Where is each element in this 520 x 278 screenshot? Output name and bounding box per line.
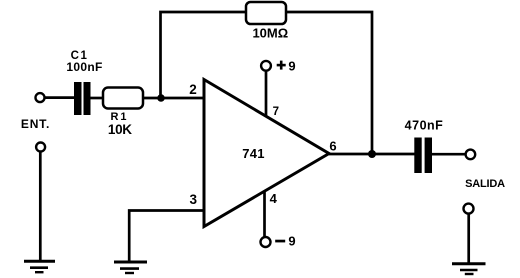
svg-text:470nF: 470nF [405,119,444,133]
svg-text:6: 6 [329,139,336,154]
svg-text:R1: R1 [110,111,128,123]
svg-text:9: 9 [288,58,295,73]
svg-text:9: 9 [288,234,295,249]
svg-text:SALIDA: SALIDA [465,178,505,190]
svg-text:7: 7 [273,106,279,118]
svg-text:ENT.: ENT. [21,117,50,131]
svg-text:10K: 10K [108,122,132,137]
svg-text:100nF: 100nF [66,60,102,74]
svg-text:10MΩ: 10MΩ [252,25,288,40]
svg-text:2: 2 [189,82,197,97]
svg-text:3: 3 [189,192,197,207]
svg-text:741: 741 [242,146,265,161]
svg-text:4: 4 [270,191,278,206]
